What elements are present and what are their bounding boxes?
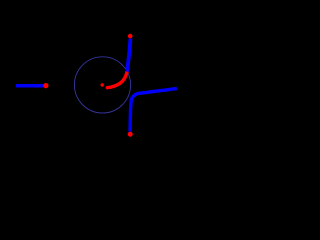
point circle center (red) [101,83,104,86]
y-axis [146,16,152,162]
x-axis [0,87,183,93]
point left endpoint (red) [43,83,48,88]
point at bottom of pole (red) [128,132,133,137]
point at top of pole (red) [128,34,133,39]
curve left constant segment [16,84,44,88]
circle neighborhood U [74,57,130,113]
curve upper branch toward pole (blue) [127,39,130,72]
curve lower right branch (blue) [130,88,177,131]
curve highlighted arc inside neighborhood (red) [107,72,127,88]
